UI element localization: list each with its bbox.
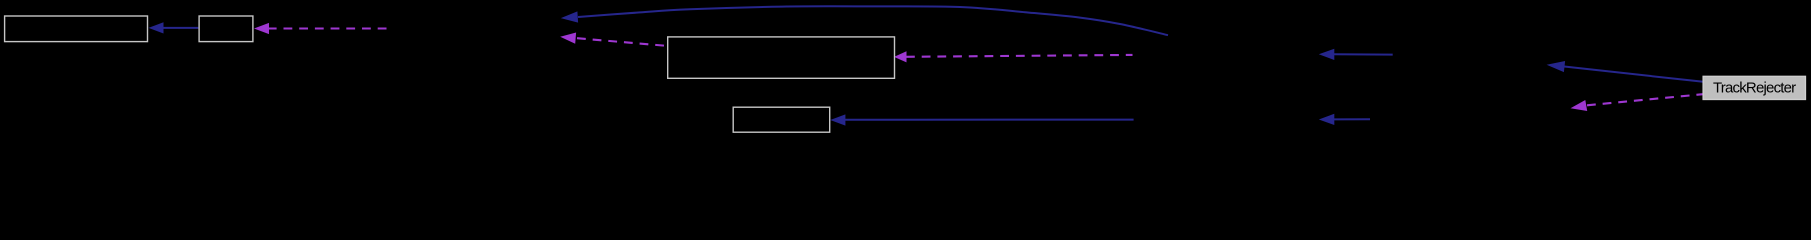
node N3: large middle black box <box>668 37 895 78</box>
wire edge E4: dashed magenta arrow sloping from box N3 area to upper-left <box>560 33 668 47</box>
node N1: left black box <box>5 16 148 42</box>
node N4: lower middle black box <box>733 107 830 132</box>
wire edge E1: solid blue arrow from node N2 to node N1 <box>149 22 199 33</box>
wire edge E10: dashed magenta arrow from node N5 (TrackRejecter) to hidden node <box>1571 94 1704 111</box>
wire edge E3: long curved solid arrow to far-left node <box>561 6 1168 35</box>
wire edge E2: dashed magenta arrow into node N2 <box>254 23 387 34</box>
wire edge E5: dashed magenta arrow into right edge of node N3 <box>894 51 1133 62</box>
node N2: small black box <box>199 16 253 42</box>
node N5: TrackRejecter gray box <box>1703 76 1805 99</box>
wire edge E9: solid blue arrow from node N5 (TrackRejecter) to hidden node <box>1547 61 1704 82</box>
wire edge E6: solid blue arrow into right edge of node N4 <box>830 114 1133 125</box>
wire edge E8: short solid blue arrow pointing left (lower) <box>1319 114 1370 125</box>
wire edge E7: short solid blue arrow pointing left (upper) <box>1319 49 1393 60</box>
svg-text:TrackRejecter: TrackRejecter <box>1713 79 1796 96</box>
